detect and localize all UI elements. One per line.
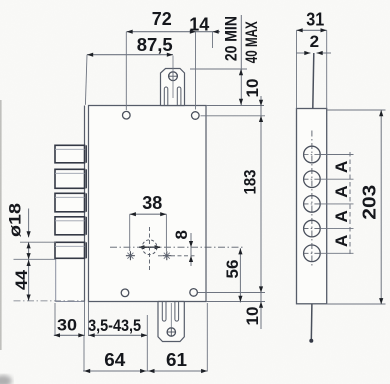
svg-text:44: 44 <box>12 269 31 290</box>
svg-text:87,5: 87,5 <box>137 35 173 55</box>
svg-text:A: A <box>332 185 351 197</box>
svg-text:203: 203 <box>360 185 380 220</box>
svg-text:8: 8 <box>172 230 191 239</box>
svg-text:183: 183 <box>241 170 260 195</box>
svg-text:61: 61 <box>166 350 187 370</box>
svg-text:64: 64 <box>104 350 125 370</box>
svg-text:72: 72 <box>152 9 172 29</box>
svg-text:10: 10 <box>243 307 262 326</box>
svg-text:2: 2 <box>310 32 319 51</box>
svg-text:31: 31 <box>306 10 324 30</box>
svg-text:A: A <box>332 210 351 222</box>
svg-text:A: A <box>332 161 351 173</box>
svg-text:38: 38 <box>142 193 162 213</box>
svg-text:14: 14 <box>189 14 209 34</box>
svg-text:20 MIN: 20 MIN <box>222 16 241 61</box>
svg-text:ø18: ø18 <box>5 203 24 237</box>
svg-text:A: A <box>332 235 351 247</box>
svg-text:3,5-43,5: 3,5-43,5 <box>88 316 141 335</box>
svg-text:56: 56 <box>223 260 242 279</box>
svg-text:40 MAX: 40 MAX <box>242 21 261 63</box>
svg-text:30: 30 <box>57 315 77 334</box>
svg-text:10: 10 <box>243 79 262 98</box>
